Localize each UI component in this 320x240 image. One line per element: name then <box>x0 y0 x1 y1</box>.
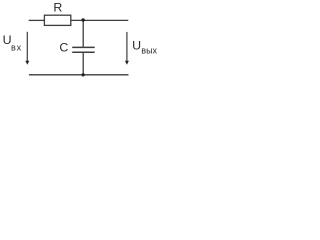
svg-text:вых: вых <box>141 46 157 56</box>
svg-text:U: U <box>132 39 141 53</box>
svg-text:R: R <box>53 1 62 15</box>
svg-text:вх: вх <box>11 42 22 52</box>
svg-text:C: C <box>59 41 68 55</box>
